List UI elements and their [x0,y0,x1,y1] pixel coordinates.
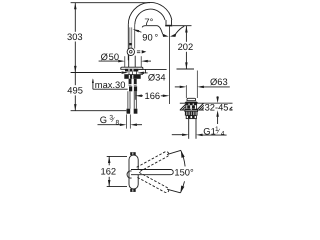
spout outlet [165,20,167,25]
sink deck bottom line [180,109,233,111]
popup knurled nut [185,112,198,116]
handle 90deg leader arrow [133,29,140,32]
deck hatch right [229,107,232,110]
swing arc 150 top [181,151,185,167]
swing arc arrow top [181,150,185,158]
dim 166 left ext line [134,91,136,100]
dim 202 extension at deck [177,68,195,70]
swing arrow right [170,33,176,37]
dim O63 ext right [196,71,198,99]
dim 162 ext top [107,155,127,157]
outlet extension line [173,25,192,27]
spout outer arc [128,2,172,24]
dim O63 [175,86,180,88]
faucet body column [128,56,130,67]
body bottom tab [130,189,136,192]
deck bottom line [124,74,143,76]
shank outline [128,71,130,74]
svg-text:202: 202 [178,42,194,52]
dim 166 [135,95,142,98]
dim 202 arrows [185,26,188,33]
hose connector left [127,109,131,114]
dim 303/495 top extension line [71,2,150,4]
popup collar detail [188,116,191,118]
spout inner arc [135,9,165,24]
svg-text:Ø63: Ø63 [210,77,228,87]
sink deck top line [180,102,233,104]
dim 162 line [108,156,110,165]
dim line 303/495 vertical [74,3,76,32]
popup body seal [186,103,196,105]
dim O63 ext left [185,85,187,98]
svg-text:495: 495 [67,86,83,96]
dim 32-45 white box [204,104,230,112]
svg-text:150°: 150° [174,167,194,177]
hose connector right [134,109,138,114]
swing ext line upper [167,150,181,154]
popup cap flare [184,100,198,103]
shank dark columns [129,79,132,86]
swing ext line lower [167,189,180,193]
svg-text:4: 4 [221,131,225,138]
hose right [133,91,135,108]
swing curve right [176,26,185,34]
handle pin dot [129,43,131,45]
dim 32-45 arrows [217,96,219,99]
svg-text:G: G [100,115,107,125]
dim 495 bottom arrow [74,104,77,111]
deck hatch middle [197,103,204,110]
svg-text:max.30: max.30 [95,80,126,90]
dim O34 left arrow [122,71,129,74]
hose nut gap [129,85,137,88]
escutcheon [121,67,143,69]
hose nut left [129,86,132,91]
body top tab [130,152,136,155]
dim 303/495 top arrow [74,3,77,10]
spout top view [131,170,173,175]
deck line left [71,72,122,74]
dim G114 right [196,134,203,137]
dim 202 line [185,26,187,42]
handle knob [127,48,134,55]
dim O34 right arrow [137,72,144,75]
swing curve left [142,26,162,34]
svg-text:166: 166 [145,91,161,101]
dashed spout position lower [137,172,170,193]
svg-text:8: 8 [116,119,120,126]
deck hatch left [180,104,186,110]
dim 303 bottom arrow [74,66,77,73]
knob turn arrow [137,50,140,52]
hose nut right [134,86,137,91]
popup nut knurls [185,112,187,116]
svg-text:90 °: 90 ° [142,32,158,42]
escutcheon nut band [125,69,138,72]
dim 495 bottom extension line [71,110,127,112]
dim G114 left [172,134,183,136]
dashed spout position upper [137,151,170,172]
riser inner line [134,24,136,48]
outlet axis line [168,26,170,104]
dim 162 arrows [108,156,111,163]
svg-text:303: 303 [67,32,83,42]
svg-text:162: 162 [101,166,117,176]
handle pin [129,27,131,48]
body cartridge circle [127,171,132,178]
svg-text:32-45: 32-45 [205,103,229,113]
deck line right [139,68,167,70]
label max.30 [92,80,94,90]
popup body detail [187,105,190,108]
popup lower collar [186,116,196,119]
svg-text:7°: 7° [144,17,153,27]
hose left [127,91,129,108]
popup cap top [187,98,196,100]
swing arrow left [162,34,168,37]
popup nut neck [185,110,198,111]
popup hole edges [185,103,187,110]
riser outer left line [127,24,129,60]
svg-text:Ø34: Ø34 [148,73,166,83]
svg-text:G1: G1 [203,127,215,137]
swing arc arrow bottom [180,186,184,194]
text 150deg [174,167,197,176]
O34 bracket tick [144,69,146,73]
swing arc 150 bottom [181,181,185,193]
popup tailpipe [188,119,190,139]
O50 extension lines [124,56,126,67]
dim 162 ext bottom [107,186,127,188]
mounting nut [124,75,140,79]
faucet body top view [129,155,138,189]
